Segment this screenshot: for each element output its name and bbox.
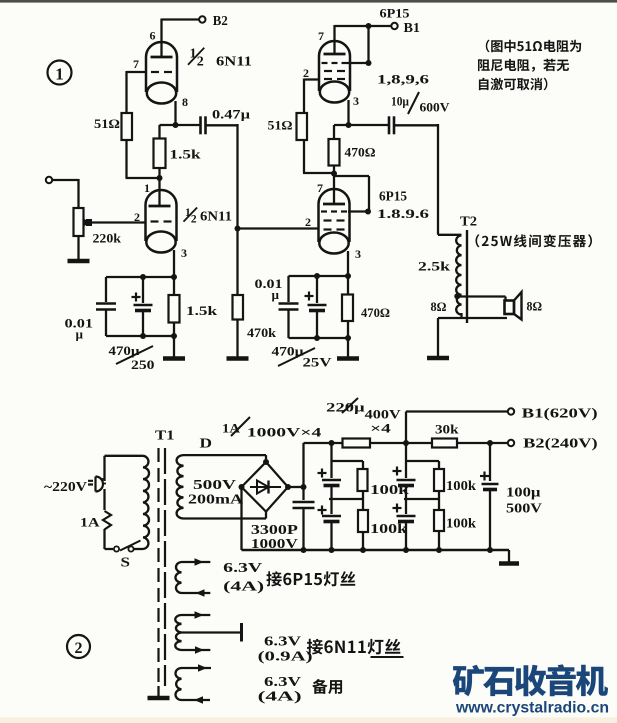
wire 470k top bbox=[236, 229, 238, 296]
plate V1a bbox=[151, 56, 173, 59]
node B junction bbox=[331, 171, 337, 177]
svg-text:600V: 600V bbox=[420, 100, 451, 115]
wire 0.01u down bbox=[105, 310, 107, 337]
wire tap to speaker bbox=[457, 295, 506, 297]
node bus2 470u bbox=[314, 335, 320, 341]
wire node A to plate V1b bbox=[158, 178, 160, 207]
plus 470u stage1 bbox=[132, 296, 141, 298]
svg-text:T1: T1 bbox=[155, 429, 175, 444]
wire T2 ground stem bbox=[437, 318, 439, 356]
wire 470ohm cathode top bbox=[347, 276, 349, 295]
wire cathode bus V2a bbox=[334, 124, 388, 126]
wire cap1a down bbox=[330, 486, 332, 500]
node bottom bus right bbox=[171, 333, 177, 339]
svg-text:2: 2 bbox=[75, 640, 83, 657]
svg-text:1: 1 bbox=[144, 181, 150, 195]
svg-text:2: 2 bbox=[303, 66, 309, 80]
wire 100k 1a top bbox=[362, 461, 364, 469]
resistor 470ohm cathode bbox=[342, 295, 353, 322]
wire top rail 1 bbox=[304, 442, 344, 444]
svg-text:B2(240V): B2(240V) bbox=[523, 437, 598, 452]
slash 1A hv bbox=[231, 417, 250, 436]
svg-text:7: 7 bbox=[318, 29, 324, 43]
node grid V2b bbox=[235, 226, 241, 232]
wire bridge minus down bbox=[240, 487, 242, 550]
svg-text:(4A): (4A) bbox=[258, 689, 302, 704]
capacitor 220u c bbox=[397, 479, 416, 482]
node bridge top bbox=[263, 459, 269, 465]
svg-text:B1(620V): B1(620V) bbox=[522, 407, 598, 422]
wire 1.5k to node A bbox=[158, 168, 160, 178]
arrow heater3 bottom bbox=[194, 696, 203, 704]
svg-text:www.crystalradio.cn: www.crystalradio.cn bbox=[455, 700, 609, 717]
heater winding spare bbox=[175, 668, 181, 700]
wire cathode bus V2b bbox=[289, 275, 349, 277]
svg-text:T2: T2 bbox=[460, 215, 477, 230]
svg-text:1.5k: 1.5k bbox=[186, 303, 218, 318]
resistor 30k bbox=[432, 439, 457, 448]
wire 470ohm cathode down bbox=[347, 321, 349, 338]
plate V1b bbox=[149, 205, 171, 208]
node brail 3300 bbox=[301, 547, 307, 553]
wire 470u stage2 down bbox=[316, 311, 318, 339]
slash 220u bbox=[342, 398, 358, 413]
input terminal bbox=[46, 177, 52, 183]
svg-text:1.8.9.6: 1.8.9.6 bbox=[377, 206, 430, 221]
wire 0.47u to grid line bbox=[206, 124, 238, 126]
wire secondary bottom bbox=[184, 517, 267, 519]
ground 470k bbox=[227, 356, 249, 361]
svg-text:B1: B1 bbox=[404, 21, 421, 36]
capacitor 220u d bbox=[397, 515, 416, 518]
svg-text:2: 2 bbox=[305, 215, 311, 229]
svg-text:250: 250 bbox=[131, 357, 155, 372]
node A junction bbox=[157, 175, 163, 181]
capacitor 220u d lead bbox=[405, 499, 407, 514]
wire plate lead V2a bbox=[333, 25, 335, 54]
logo crystalradio cjk bbox=[453, 664, 608, 696]
svg-text:6.3V: 6.3V bbox=[264, 674, 301, 689]
arrow heater3 top bbox=[198, 664, 207, 672]
svg-text:30k: 30k bbox=[435, 422, 459, 437]
capacitor 470u/25V lead bbox=[316, 276, 318, 303]
resistor 470k bbox=[233, 295, 244, 320]
wire heater2 bottom bbox=[182, 649, 211, 651]
wire input to pot bbox=[52, 179, 79, 181]
note line1 bbox=[486, 40, 581, 53]
wire bridge plus bbox=[288, 486, 304, 488]
svg-text:3: 3 bbox=[355, 247, 361, 261]
page top bar bbox=[0, 0, 617, 3]
wire wiper to grid V1b bbox=[91, 221, 146, 223]
terminal B2 out bbox=[508, 440, 514, 446]
resistor 51ohm left bbox=[122, 113, 133, 140]
node B1 wire bbox=[366, 23, 372, 29]
capacitor 470u/250 bbox=[134, 304, 153, 307]
svg-text:1: 1 bbox=[55, 65, 64, 84]
bridge diode symbol bbox=[250, 486, 281, 488]
node T2 tap bbox=[454, 293, 460, 299]
node bottom bus 470u bbox=[140, 333, 146, 339]
T1 primary winding bbox=[142, 456, 144, 549]
svg-text:2: 2 bbox=[191, 213, 197, 225]
resistor 1.5k upper bbox=[154, 139, 166, 169]
grid V1a dashes bbox=[151, 71, 159, 73]
capacitor 470u/250 lead bbox=[142, 277, 144, 303]
wire bank2 cap lead bbox=[405, 461, 407, 478]
wire cathode V1b bbox=[173, 250, 175, 277]
svg-text:6P15: 6P15 bbox=[380, 6, 411, 21]
speaker cone bbox=[514, 292, 522, 320]
wire 100k 1a down bbox=[362, 491, 364, 510]
node bridge left bbox=[239, 484, 245, 490]
wire 0.01u stage2 down bbox=[287, 310, 289, 339]
svg-text:0.47µ: 0.47µ bbox=[212, 107, 251, 122]
wire B1 branch bbox=[405, 412, 407, 444]
svg-text:500V: 500V bbox=[506, 502, 542, 517]
wire bank1 hbar bbox=[332, 460, 364, 462]
resistor 470ohm srpp bbox=[329, 139, 340, 166]
section marker 1 bbox=[48, 61, 72, 85]
wire bank1 midbus bbox=[329, 498, 363, 500]
tube V1a 1/2 6N11 envelope bbox=[146, 42, 177, 92]
ground T1 core bbox=[148, 696, 170, 701]
svg-text:25V: 25V bbox=[303, 355, 333, 370]
svg-text:µ: µ bbox=[76, 327, 84, 342]
resistor 1.5k lower bbox=[169, 295, 180, 323]
svg-text:470Ω: 470Ω bbox=[361, 305, 390, 320]
node 470u top bbox=[140, 274, 146, 280]
T1 core right bbox=[164, 448, 166, 686]
wire cathode bus V1b bbox=[106, 276, 174, 278]
svg-text:B2: B2 bbox=[213, 14, 228, 29]
capacitor 0.01u stage2 bbox=[279, 302, 299, 304]
wire 1.5k upper top bbox=[158, 125, 160, 139]
svg-text:8Ω: 8Ω bbox=[431, 299, 447, 314]
svg-text:~220V: ~220V bbox=[44, 479, 87, 494]
svg-text:6.3V: 6.3V bbox=[264, 634, 301, 649]
slash 470u bbox=[116, 346, 153, 364]
wire bank1 cap lead bbox=[330, 461, 332, 478]
capacitor 220u b bbox=[322, 515, 341, 518]
svg-text:6N11: 6N11 bbox=[216, 54, 252, 69]
plus cap2b bbox=[393, 507, 402, 509]
wire grid V1a to 51ohm bbox=[127, 71, 147, 73]
wire bplus to 3300P bbox=[302, 487, 304, 500]
wire 470k down bbox=[236, 320, 238, 358]
capacitor 10u/600V bbox=[388, 116, 391, 134]
svg-text:S: S bbox=[121, 556, 131, 571]
svg-text:2: 2 bbox=[134, 210, 140, 224]
wire cathode bus V1a bbox=[160, 124, 201, 126]
wire 470u down bbox=[142, 311, 144, 337]
node rail bank1 bbox=[329, 440, 335, 446]
page bottom strip bbox=[0, 718, 617, 723]
grid V1b dashes bbox=[151, 220, 159, 222]
node cathode V1b bbox=[171, 274, 177, 280]
wire bank2 hbar bbox=[406, 460, 439, 462]
svg-text:1.5k: 1.5k bbox=[170, 147, 202, 162]
svg-text:1,8,9,6: 1,8,9,6 bbox=[377, 72, 430, 87]
wire 100k 1b down bbox=[362, 532, 364, 550]
capacitor 220u a bbox=[322, 479, 341, 482]
arrow heater1 bottom bbox=[196, 589, 205, 597]
capacitor 0.47u bbox=[199, 116, 202, 134]
svg-text:200mA: 200mA bbox=[188, 492, 243, 507]
wire bank2 down bbox=[405, 443, 407, 461]
node cathode V1a bbox=[173, 122, 179, 128]
wire 100u down bbox=[489, 490, 491, 551]
wire heater2 top bbox=[182, 614, 211, 616]
resistor filter bbox=[343, 439, 371, 448]
svg-text:1A: 1A bbox=[80, 515, 100, 530]
wire cap2b down bbox=[405, 522, 407, 551]
svg-text:6.3V: 6.3V bbox=[223, 560, 262, 575]
svg-text:(4A): (4A) bbox=[223, 579, 264, 594]
capacitor 0.01u stage2 lead bbox=[287, 276, 289, 302]
arrow heater2 bottom bbox=[195, 646, 204, 654]
wire mains top bbox=[103, 456, 105, 481]
wire secondary top bbox=[184, 454, 267, 456]
grid V2a dashes bbox=[322, 62, 328, 64]
svg-text:3: 3 bbox=[181, 246, 187, 260]
capacitor 220u b lead bbox=[330, 499, 332, 514]
svg-text:470k: 470k bbox=[247, 325, 277, 340]
wire cap2a down bbox=[405, 486, 407, 500]
plus cap1a bbox=[318, 472, 327, 474]
svg-text:220k: 220k bbox=[93, 231, 122, 246]
wire 470ohm top bbox=[333, 125, 335, 139]
resistor 100k 2a bbox=[434, 469, 444, 491]
label heater2 cjk bbox=[307, 639, 400, 655]
wire 470ohm to node B bbox=[333, 166, 335, 205]
heater winding 6P15 bbox=[175, 562, 181, 593]
svg-text:470µ: 470µ bbox=[109, 343, 141, 358]
wire top rail 2 bbox=[370, 442, 432, 444]
svg-text:6P15: 6P15 bbox=[379, 189, 407, 204]
tube V1b 1/2 6N11 envelope bbox=[146, 190, 177, 241]
ground stage1 bbox=[163, 356, 185, 361]
terminal B2 bbox=[199, 16, 205, 22]
switch S bbox=[114, 546, 119, 551]
wire heater1 bottom bbox=[182, 592, 211, 594]
wire bplus up bbox=[302, 443, 304, 487]
svg-text:1000V×4: 1000V×4 bbox=[247, 425, 322, 440]
capacitor 470u/25V bbox=[308, 304, 327, 307]
wire 100k 2a top bbox=[438, 461, 440, 469]
T2 winding bbox=[456, 236, 461, 315]
ground main rail bbox=[499, 561, 519, 566]
bridge rectifier D bbox=[242, 462, 289, 512]
wire to ground stage1 bbox=[173, 336, 175, 357]
svg-text:µ: µ bbox=[272, 287, 280, 302]
wire 100k 2b down bbox=[438, 531, 440, 550]
svg-text:51Ω: 51Ω bbox=[268, 118, 293, 133]
note 25W (CJK) bbox=[476, 234, 593, 247]
node rail bank2 bbox=[403, 440, 409, 446]
svg-text:400V: 400V bbox=[365, 407, 402, 422]
svg-text:500V: 500V bbox=[193, 477, 236, 492]
resistor 100k 1a bbox=[358, 469, 368, 491]
node brail c2 bbox=[403, 547, 409, 553]
svg-text:470Ω: 470Ω bbox=[345, 145, 376, 160]
wire cathode V1a bbox=[174, 101, 176, 125]
node bplus bbox=[301, 484, 307, 490]
slash 470u 25V bbox=[278, 348, 315, 366]
section marker 2 bbox=[67, 635, 90, 658]
resistor 51ohm right bbox=[297, 113, 308, 140]
tube V2a 6P15 envelope bbox=[319, 41, 350, 91]
svg-text:1000V: 1000V bbox=[251, 536, 298, 551]
wire 51ohm to node bbox=[125, 140, 127, 178]
wire to ground stage2 bbox=[347, 338, 349, 357]
ground pot bbox=[68, 259, 90, 264]
fuse 1A bbox=[103, 511, 111, 530]
wire 51ohm right to node bbox=[303, 140, 305, 173]
wire grid V2a bbox=[304, 78, 319, 80]
wire switch to primary bbox=[134, 548, 144, 550]
resistor 100k 2b bbox=[434, 510, 444, 531]
wire cathode V2b bbox=[347, 251, 349, 276]
plus 100u bbox=[480, 475, 489, 477]
wire B2 top bbox=[162, 18, 200, 20]
wire plate lead V1a bbox=[160, 19, 162, 58]
svg-text:3: 3 bbox=[353, 94, 359, 108]
speaker 8ohm box bbox=[505, 301, 515, 315]
plus cap1b bbox=[318, 509, 327, 511]
svg-text:8Ω: 8Ω bbox=[527, 299, 543, 314]
wire mains bottom lead bbox=[103, 489, 105, 510]
wire 3300P down bbox=[302, 508, 304, 550]
node cathode V2b bbox=[345, 273, 351, 279]
label heater1 cjk bbox=[266, 571, 355, 586]
svg-text:8: 8 bbox=[182, 95, 188, 109]
T1 secondary 500V bbox=[177, 455, 184, 518]
svg-text:2: 2 bbox=[197, 55, 204, 70]
wire heater2 tap bbox=[182, 631, 241, 633]
node tie V2b bbox=[365, 209, 371, 215]
svg-text:10µ: 10µ bbox=[391, 94, 409, 109]
svg-text:2.5k: 2.5k bbox=[418, 259, 451, 274]
wire 1.5k lower top bbox=[173, 277, 175, 295]
note line3 bbox=[479, 78, 548, 91]
heater winding 6N11 bbox=[175, 615, 181, 650]
svg-text:(0.9A): (0.9A) bbox=[258, 649, 313, 664]
svg-text:D: D bbox=[200, 437, 213, 452]
wire 100u lead bbox=[489, 443, 491, 481]
wire node B tie right bbox=[334, 175, 369, 177]
wire 100k 2a down bbox=[438, 491, 440, 510]
terminal B1 out bbox=[508, 408, 514, 414]
grid V2b dashes bbox=[321, 210, 327, 212]
ground stage2 bbox=[337, 356, 359, 361]
node 470u stage2 top bbox=[314, 273, 320, 279]
label spare cjk bbox=[312, 679, 342, 694]
wire grid V2b bbox=[238, 227, 319, 229]
wire pot to ground bbox=[77, 236, 79, 259]
node bus2 right bbox=[345, 335, 351, 341]
wire bottom bus stage2 bbox=[289, 337, 349, 339]
svg-text:×4: ×4 bbox=[370, 421, 391, 436]
note line2 bbox=[478, 59, 569, 72]
svg-text:3300P: 3300P bbox=[251, 522, 298, 537]
svg-text:100k: 100k bbox=[446, 516, 477, 531]
arrow heater2 top bbox=[195, 611, 204, 619]
wire 1.5k lower down bbox=[173, 323, 175, 337]
wire heater3 bottom bbox=[182, 699, 211, 701]
mains plug bbox=[88, 477, 103, 492]
node cathode V2a bbox=[346, 122, 352, 128]
plus cap2a bbox=[393, 470, 402, 472]
capacitor 0.01u stage1 lead bbox=[105, 277, 107, 302]
pot wiper arrow bbox=[84, 219, 92, 226]
plate V2a bbox=[324, 53, 346, 56]
wire bank2 midbus bbox=[404, 498, 439, 500]
svg-text:6: 6 bbox=[150, 29, 156, 43]
capacitor 0.01u stage1 bbox=[96, 302, 116, 304]
svg-text:7: 7 bbox=[133, 57, 139, 71]
capacitor 100u/500V bbox=[482, 483, 499, 486]
node brail c1 bbox=[329, 547, 335, 553]
wire bottom bus stage1 bbox=[106, 335, 174, 337]
node brail r1 bbox=[360, 547, 366, 553]
T1 core ground stem bbox=[157, 686, 159, 697]
node screen tie V2a bbox=[366, 60, 372, 66]
wire T2 bottom bbox=[460, 313, 462, 318]
ground T2 bbox=[427, 356, 449, 361]
plus 470u stage2 bbox=[305, 295, 314, 297]
resistor 100k 1b bbox=[358, 510, 368, 532]
svg-text:220µ: 220µ bbox=[326, 400, 365, 415]
potentiometer 220k bbox=[74, 208, 84, 236]
svg-text:100k: 100k bbox=[446, 478, 477, 493]
slash 10u bbox=[408, 92, 419, 114]
wire cathode V2a bbox=[347, 100, 349, 125]
wire heater1 top bbox=[182, 561, 211, 563]
node bridge right bbox=[285, 484, 291, 490]
wire B1 top bbox=[335, 25, 393, 27]
wire bottom rail bbox=[242, 549, 510, 551]
T2 core bbox=[466, 230, 468, 323]
wire fuse to switch bbox=[103, 529, 105, 549]
tube V2b 6P15 envelope bbox=[319, 189, 350, 242]
wire heater3 top bbox=[182, 667, 212, 669]
wire bank1 down bbox=[330, 443, 332, 461]
heater2 tap bar bbox=[240, 623, 243, 642]
capacitor 3300P bbox=[293, 501, 315, 503]
wire cap1b down bbox=[330, 522, 332, 551]
arrow heater1 top bbox=[195, 558, 204, 566]
wire 10u to T2 bbox=[394, 124, 438, 126]
node brail 100u bbox=[487, 547, 493, 553]
svg-text:6N11: 6N11 bbox=[200, 209, 232, 224]
terminal B1 bbox=[391, 23, 397, 29]
plate V2b bbox=[323, 203, 345, 206]
wire rail ground stem bbox=[508, 550, 510, 562]
wire rail to B2 bbox=[457, 442, 508, 444]
svg-text:51Ω: 51Ω bbox=[94, 116, 120, 131]
node 100u top bbox=[487, 440, 493, 446]
T1 core left bbox=[157, 448, 159, 686]
svg-text:100µ: 100µ bbox=[506, 486, 541, 501]
node brail r2 bbox=[436, 547, 442, 553]
wire screen tie V2a bbox=[347, 62, 369, 64]
